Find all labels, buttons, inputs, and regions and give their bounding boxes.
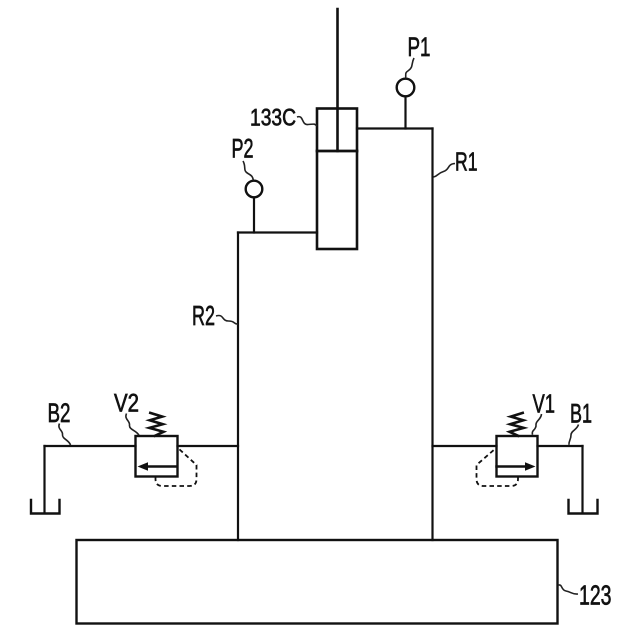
svg-text:P1: P1 <box>408 32 431 62</box>
frame 123 box <box>77 540 558 624</box>
leader 123 <box>558 585 578 594</box>
port P2 stem <box>253 198 255 233</box>
svg-text:R2: R2 <box>192 300 215 331</box>
valve V1 arrowhead <box>525 462 536 471</box>
valve V2 box <box>136 436 178 477</box>
svg-text:B2: B2 <box>48 398 71 428</box>
leader 133C <box>297 117 317 126</box>
port P2 circle <box>246 181 263 198</box>
valve V1 box <box>497 436 538 477</box>
svg-text:133C: 133C <box>250 105 296 132</box>
valve V2 arrow line <box>146 465 177 467</box>
pipe R2 <box>237 233 239 541</box>
leader P1 <box>406 58 415 79</box>
tank B2 <box>31 500 60 514</box>
piston rod <box>336 9 339 151</box>
valve V2 pilot dashed line <box>156 449 197 487</box>
leader R1 <box>434 164 456 178</box>
leader P2 <box>243 161 254 181</box>
drop pipe B1 <box>581 446 583 513</box>
valve V2 spring <box>149 413 163 436</box>
wire R2 top to cylinder <box>238 231 317 233</box>
wire valve V2 to pipe R2 <box>178 445 239 447</box>
leader V1 <box>532 414 541 435</box>
leader B2 <box>59 424 71 446</box>
svg-text:P2: P2 <box>232 134 254 164</box>
leader R2 <box>216 315 238 324</box>
svg-text:R1: R1 <box>455 147 478 177</box>
port P1 circle <box>397 79 415 97</box>
wire cylinder to R1 top <box>357 127 433 129</box>
valve V1 spring <box>510 413 524 436</box>
wire pipe R1 to valve V1 <box>433 445 497 447</box>
pipe R1 <box>431 129 433 541</box>
wire valve V1 to B1 <box>538 445 583 447</box>
drop pipe B2 <box>43 446 45 513</box>
cylinder 133C body <box>317 109 357 250</box>
port P1 stem <box>404 97 406 129</box>
tank B1 <box>569 500 598 514</box>
valve V1 pilot dashed line <box>477 449 519 487</box>
leader B1 <box>569 425 579 445</box>
leader V2 <box>126 414 139 436</box>
svg-text:V1: V1 <box>533 389 556 419</box>
valve V1 arrow line <box>497 465 529 467</box>
piston line <box>317 150 357 153</box>
svg-text:B1: B1 <box>570 399 592 429</box>
valve V2 arrowhead <box>138 462 149 471</box>
svg-text:V2: V2 <box>114 390 139 418</box>
svg-text:123: 123 <box>579 580 612 611</box>
wire B2 to valve V2 <box>45 445 136 447</box>
